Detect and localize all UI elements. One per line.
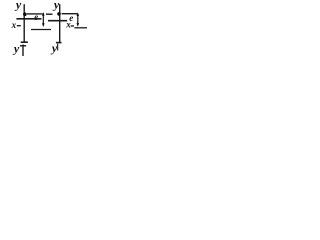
- svg-text:y: y: [50, 41, 58, 55]
- crossbar on bottom-left axis: [20, 45, 26, 47]
- dash after x (left panel): [17, 25, 21, 27]
- svg-text:y: y: [14, 0, 22, 12]
- electron dot (right panel): [57, 12, 61, 16]
- x-axis (left panel): [16, 18, 41, 20]
- leader line from dot to arrow (left panel): [27, 13, 43, 15]
- dash after x (right panel): [71, 25, 74, 27]
- y-axis top (bottom row, left panel): [22, 45, 24, 57]
- leader line to arrow (right panel): [62, 13, 78, 15]
- oscillation double arrow (right panel): [77, 14, 79, 25]
- y-axis (right panel): [59, 4, 61, 42]
- svg-text:x: x: [65, 20, 71, 30]
- x-axis (right panel): [48, 20, 67, 22]
- oscillation double arrow (left panel): [42, 14, 44, 26]
- axis bottom bar (left panel): [21, 41, 28, 43]
- svg-text:y: y: [12, 42, 20, 56]
- svg-text:x: x: [11, 20, 17, 30]
- y-axis top (bottom row, right panel): [57, 44, 59, 51]
- svg-text:e: e: [34, 12, 38, 22]
- axis bottom bar (right panel): [56, 42, 62, 44]
- long line between panels: [31, 29, 51, 31]
- long line right edge: [74, 27, 87, 29]
- electron dot (left panel): [23, 12, 27, 16]
- svg-text:y: y: [52, 0, 60, 12]
- left dash at electron level (right panel): [46, 13, 53, 15]
- y-axis (left panel): [23, 4, 25, 42]
